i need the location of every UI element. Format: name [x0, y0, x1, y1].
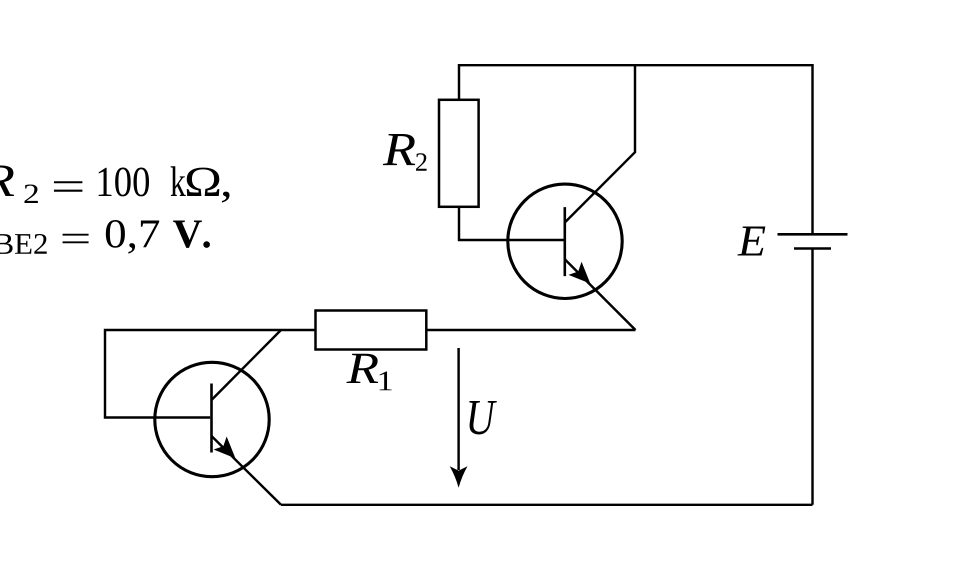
resistor R2: [439, 100, 479, 207]
transistor Q2 base bar: [563, 207, 566, 276]
label R2: [383, 134, 427, 171]
voltage arrow U: [450, 348, 468, 488]
label R1: [346, 354, 391, 391]
Q1 emitter arrowhead: [215, 438, 234, 457]
wire R1 row right segment: [426, 329, 635, 331]
wire top rail and right rail to battery: [459, 65, 813, 505]
transistor Q2 circle: [508, 184, 622, 298]
resistor R1: [316, 311, 427, 350]
wire bottom rail: [281, 504, 813, 506]
wire R2 bottom lead and Q2 base: [459, 207, 564, 240]
wire Q2 collector: [565, 65, 635, 222]
Q2 emitter arrowhead: [570, 264, 589, 283]
transistor Q1 base bar: [210, 384, 213, 453]
equation line 1: R2 = 100 kOhm: [0, 165, 230, 203]
transistor Q1 circle: [155, 362, 269, 476]
label U: [469, 401, 497, 434]
label E: [737, 227, 765, 256]
wire Q1 emitter: [212, 436, 282, 505]
wire Q2 emitter: [565, 259, 636, 330]
wire R1 row left, left vertical and Q1 base: [105, 330, 316, 418]
wire Q1 collector: [212, 330, 282, 400]
equation line 2: UBE2 = 0,7 V: [0, 220, 210, 254]
battery E plates: [778, 234, 848, 248]
